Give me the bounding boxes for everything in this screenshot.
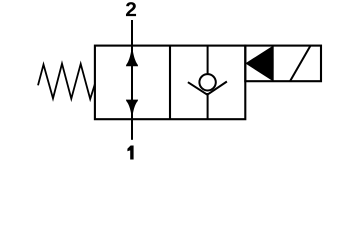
arrowhead down xyxy=(126,100,138,121)
label port 1 xyxy=(127,146,133,160)
arrowhead up xyxy=(126,45,138,67)
label port 2 xyxy=(126,2,136,16)
check valve seat xyxy=(188,82,227,95)
position divider xyxy=(169,46,171,120)
spring xyxy=(38,64,95,99)
valve body envelope xyxy=(95,46,245,120)
check valve ball xyxy=(199,74,215,90)
check valve upper line xyxy=(207,46,209,75)
solenoid stroke diagonal xyxy=(290,46,311,82)
solenoid armature triangle xyxy=(245,45,273,81)
flow path line xyxy=(131,47,133,119)
wire port 1 xyxy=(131,119,133,140)
wire port 2 xyxy=(131,20,133,47)
check valve lower line xyxy=(207,93,209,119)
solenoid box xyxy=(245,46,321,82)
